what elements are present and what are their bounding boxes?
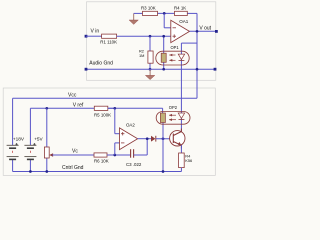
wire R1 to OA1 plus input <box>117 35 171 37</box>
svg-text:Vc: Vc <box>72 148 78 154</box>
node V in <box>85 29 100 38</box>
svg-text:+5V: +5V <box>34 136 43 141</box>
wire OP1 LED anode link <box>181 42 197 44</box>
svg-text:Audio Gnd: Audio Gnd <box>89 61 113 67</box>
op-amp OA1 <box>171 19 190 42</box>
wire OA1 output to V out <box>190 30 217 32</box>
resistor R2 1M <box>139 49 153 64</box>
wire C3 to feedback corner <box>134 139 148 155</box>
svg-text:K56: K56 <box>185 158 192 163</box>
node audio gnd x197 junction <box>196 68 199 71</box>
opto-coupler OP2 <box>156 105 190 124</box>
svg-text:V out: V out <box>199 25 211 31</box>
svg-text:OA1: OA1 <box>179 19 189 24</box>
svg-text:R4 1K: R4 1K <box>174 5 186 10</box>
wire minus input drop <box>115 143 120 155</box>
node LDR top junction <box>162 35 165 38</box>
svg-text:OP1: OP1 <box>171 45 180 50</box>
wire audio gnd line <box>86 68 215 70</box>
svg-text:OA2: OA2 <box>126 123 135 128</box>
node R3 R4 junction <box>163 12 166 15</box>
wire OP2 LDR bottom <box>162 123 164 172</box>
wire diode to Q1 base <box>156 138 174 140</box>
wire R2 leads <box>149 36 151 69</box>
wire Vc line <box>52 154 94 156</box>
svg-text:Cntrl Gnd: Cntrl Gnd <box>62 165 84 171</box>
opto-coupler OP1 <box>156 45 189 65</box>
svg-text:R5 100K: R5 100K <box>94 112 111 117</box>
wire R4 bottom to ground rail <box>180 168 182 172</box>
svg-text:R3 10K: R3 10K <box>141 5 156 10</box>
svg-text:OP2: OP2 <box>169 105 178 110</box>
capacitor C3 .022 <box>126 149 142 167</box>
svg-text:1M: 1M <box>139 53 144 58</box>
svg-text:+18V: +18V <box>13 136 25 141</box>
wire OP1 LDR column <box>163 36 165 69</box>
wire V ref rail <box>30 108 162 113</box>
svg-text:R1 110K: R1 110K <box>100 40 117 45</box>
node LDR2 bottom junction <box>162 170 165 173</box>
node battery2 bottom junction <box>29 170 32 173</box>
ground audio gnd arrow under R2 <box>145 69 154 79</box>
svg-text:V ref: V ref <box>73 102 84 108</box>
wire Vcc rail <box>13 97 197 99</box>
svg-text:Vcc: Vcc <box>68 93 77 99</box>
node audio gnd left port <box>85 61 114 71</box>
node V out port <box>199 25 217 32</box>
transistor Q1 <box>170 129 185 149</box>
resistor R3 10K <box>141 5 158 15</box>
potentiometer pot <box>44 108 53 171</box>
wire OP1 LED cathode down to OP2 <box>180 43 182 120</box>
battery B1 +18V <box>7 98 25 171</box>
node audio gnd right port <box>214 68 217 71</box>
svg-text:V in: V in <box>91 29 100 35</box>
op-amp OA2 <box>120 123 138 150</box>
resistor R5 100K <box>94 106 111 117</box>
svg-text:C3 .022: C3 .022 <box>126 162 142 167</box>
svg-text:R6 10K: R6 10K <box>94 158 109 163</box>
wire Q1 emitter to R4 <box>180 145 182 153</box>
wire R3R4 junction to OA1 minus input <box>164 13 171 27</box>
wire R5 to junction <box>108 107 115 109</box>
ground G1 for R3 <box>129 13 138 24</box>
resistor R6 10K <box>94 153 109 164</box>
sheet borders (decorative) <box>3 2 216 176</box>
wire OP2 LED cathode to Q1 collector <box>180 120 182 132</box>
node pot bottom junction <box>45 170 48 173</box>
node R2 top junction <box>149 35 152 38</box>
node output feedback junction <box>146 137 149 140</box>
node plus drop junction <box>113 107 116 110</box>
wire R6 to C3 <box>107 154 130 156</box>
node pot top junction <box>45 107 48 110</box>
resistor R4 K56 <box>179 153 193 168</box>
node LDR bottom junction <box>162 68 165 71</box>
diode D1 <box>151 136 156 142</box>
battery B2 +5V <box>24 108 43 171</box>
wire control ground rail <box>13 171 182 173</box>
wire V in to R1 <box>86 35 102 37</box>
node R2 bottom junction <box>149 68 152 71</box>
resistor R4 1K <box>174 5 187 15</box>
resistor R1 110K <box>100 34 117 45</box>
node minus drop junction <box>113 154 116 157</box>
node OP2 LDR junction on base wire <box>162 137 165 140</box>
wire OA2 output <box>138 138 151 140</box>
wire plus input drop <box>115 108 120 133</box>
wire top feedback row <box>134 13 197 98</box>
node feedback junction on output <box>196 30 199 33</box>
